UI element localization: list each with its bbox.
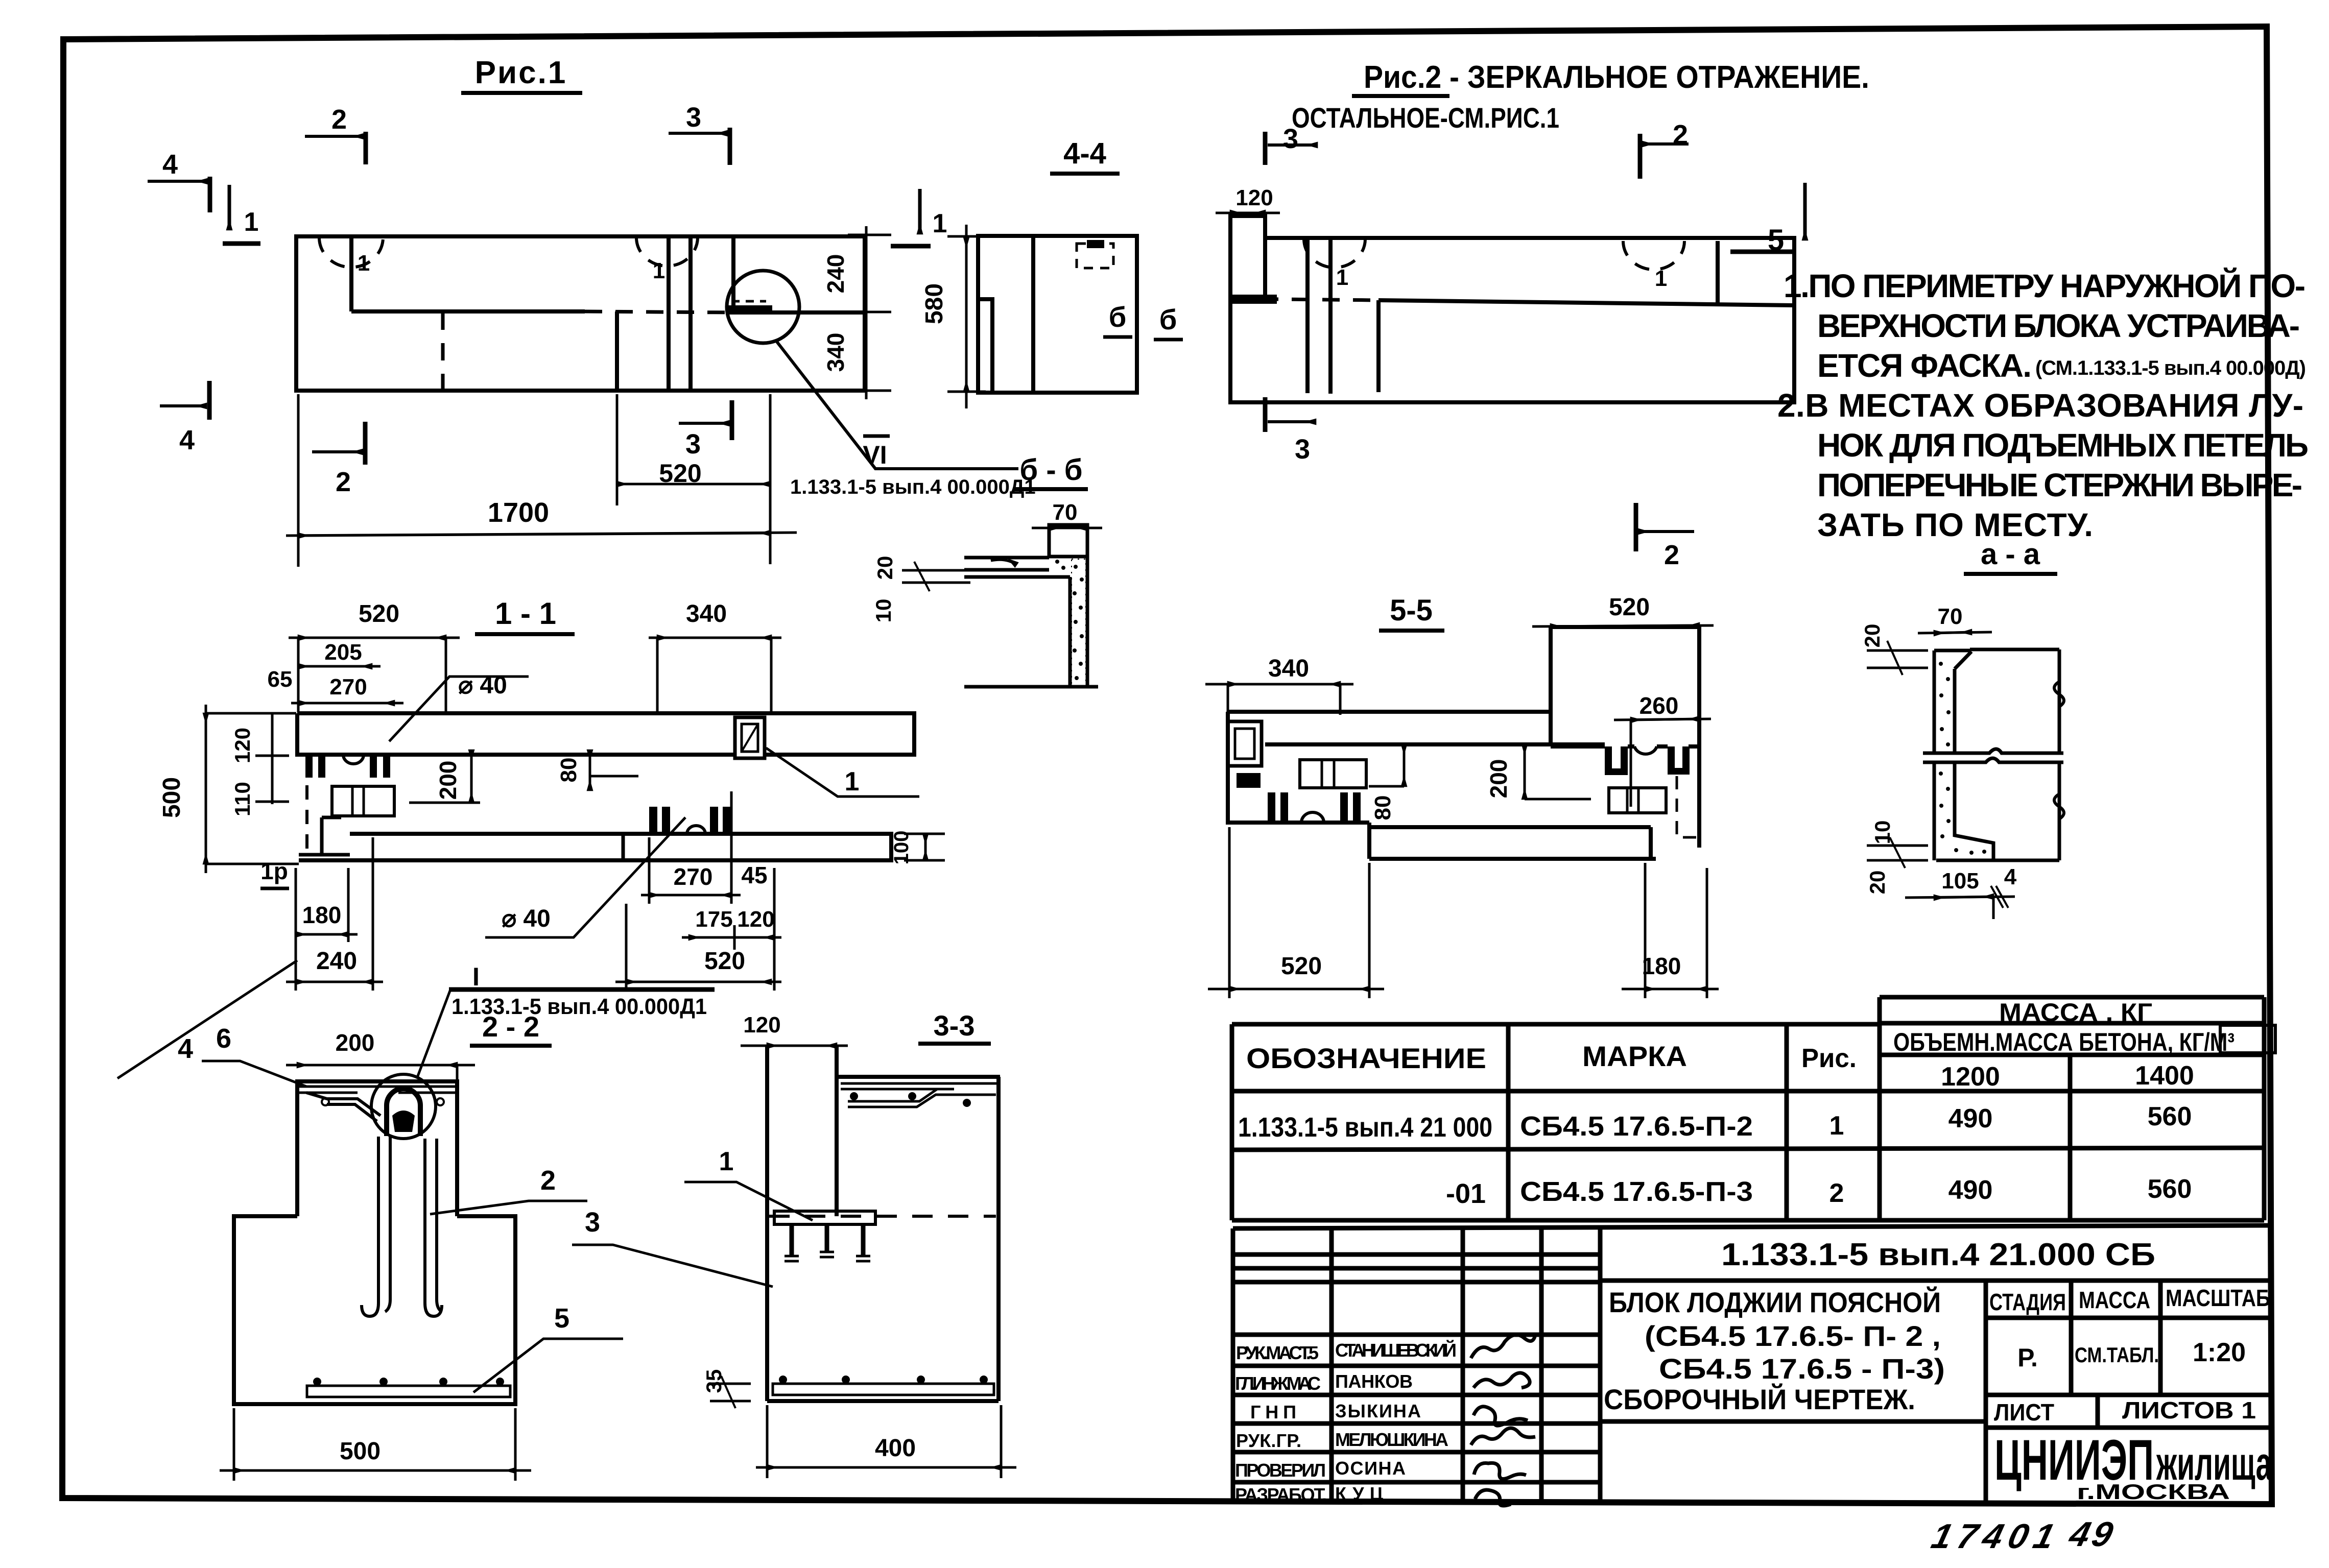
left corner L (299, 817, 388, 860)
svg-text:1.133.1-5 вып.4 21.000 СБ: 1.133.1-5 вып.4 21.000 СБ (1721, 1237, 2155, 1272)
svg-text:СБ4.5 17.6.5-П-3: СБ4.5 17.6.5-П-3 (1520, 1176, 1753, 1207)
section mark 2 (bottom, Рис.2) (1636, 503, 1694, 570)
svg-text:СТАНИШЕВСКИЙ: СТАНИШЕВСКИЙ (1335, 1339, 1457, 1361)
break squiggle right upper (2054, 682, 2064, 707)
svg-text:1: 1 (653, 258, 665, 283)
notch bump under block (1634, 746, 1657, 754)
svg-text:Рис.: Рис. (1801, 1044, 1857, 1073)
dims 175 120 (682, 868, 781, 991)
dim 1700 below plan (286, 394, 797, 567)
svg-text:3: 3 (585, 1207, 600, 1238)
svg-text:500: 500 (158, 777, 185, 818)
svg-text:ПРОВЕРИЛ: ПРОВЕРИЛ (1235, 1460, 1326, 1481)
svg-text:2: 2 (1664, 540, 1679, 570)
loop box right end (735, 717, 765, 758)
svg-text:520: 520 (1281, 953, 1322, 980)
svg-text:3: 3 (686, 102, 701, 133)
svg-text:520: 520 (1609, 594, 1650, 621)
label 1 with leader (3-3) (684, 1147, 813, 1220)
parapet strip left (1230, 216, 1265, 299)
signatures squiggles (1471, 1335, 1535, 1506)
a-a lower wall with foot (1934, 762, 2059, 860)
svg-text:СБ4.5 17.6.5-П-2: СБ4.5 17.6.5-П-2 (1520, 1111, 1753, 1142)
notch arc on slab bottom (343, 755, 364, 764)
dim 340 top (649, 600, 781, 712)
svg-text:МАССА: МАССА (2079, 1287, 2150, 1313)
svg-text:1: 1 (358, 251, 370, 276)
svg-text:560: 560 (2148, 1174, 2192, 1204)
dim 580 (921, 225, 986, 408)
elevated block 5-5 (1551, 625, 1699, 746)
4-4 recess dashed (1077, 244, 1113, 268)
2-2 base outline (234, 1216, 515, 1404)
svg-text:5: 5 (554, 1303, 569, 1334)
dim 400 (3-3) (756, 1405, 1016, 1478)
svg-text:СБОРОЧНЫЙ ЧЕРТЕЖ.: СБОРОЧНЫЙ ЧЕРТЕЖ. (1604, 1383, 1915, 1415)
svg-text:240: 240 (316, 948, 357, 975)
svg-text:⌀ 40: ⌀ 40 (502, 905, 551, 932)
label 2 with leader (430, 1165, 587, 1214)
dim 520 bottom (5-5) (1208, 827, 1384, 998)
3-3 bottom mesh (773, 1384, 994, 1395)
inner line solid right part (1379, 300, 1794, 305)
svg-text:1.ПО ПЕРИМЕТРУ НАРУЖНОЙ ПО-: 1.ПО ПЕРИМЕТРУ НАРУЖНОЙ ПО- (1784, 267, 2306, 304)
svg-text:1.133.1-5 вып.4 00.000Д1: 1.133.1-5 вып.4 00.000Д1 (790, 476, 1036, 498)
svg-text:ЗАТЬ ПО МЕСТУ.: ЗАТЬ ПО МЕСТУ. (1817, 506, 2093, 543)
a-a dims 105 4 (1905, 864, 2017, 919)
svg-text:ОСТАЛЬНОЕ-СМ.РИС.1: ОСТАЛЬНОЕ-СМ.РИС.1 (1292, 102, 1559, 134)
svg-text:10: 10 (871, 599, 895, 623)
svg-text:340: 340 (822, 333, 849, 372)
svg-text:1: 1 (1829, 1111, 1844, 1141)
svg-text:3-3: 3-3 (934, 1009, 975, 1042)
svg-text:1.133.1-5 вып.4 21 000: 1.133.1-5 вып.4 21 000 (1238, 1112, 1492, 1143)
right stirrups U-shapes (1605, 746, 1690, 775)
vline right portion (731, 236, 735, 312)
label 6 with leader (202, 1023, 306, 1087)
svg-text:РУК.МАСТ.5: РУК.МАСТ.5 (1236, 1342, 1319, 1363)
signature table verticals (1329, 1228, 1334, 1500)
section mark 3 (bottom, Рис.2) (1265, 397, 1316, 465)
svg-text:Рис.1: Рис.1 (475, 55, 567, 90)
svg-text:2: 2 (1829, 1178, 1844, 1208)
svg-text:ЛИСТ: ЛИСТ (1994, 1399, 2054, 1426)
a-a dim 20 top left (1860, 624, 1928, 675)
step vline right (1716, 241, 1720, 303)
svg-text:ГНП: ГНП (1250, 1402, 1296, 1422)
bottom mesh plate (307, 1386, 510, 1397)
label Рис.2 - зеркальное отражение (1292, 60, 1869, 134)
svg-text:120: 120 (1235, 185, 1273, 210)
svg-text:2: 2 (540, 1165, 556, 1196)
svg-text:ПАНКОВ: ПАНКОВ (1335, 1371, 1413, 1392)
section mark 4 (top) (148, 149, 210, 212)
dashed vline (441, 312, 445, 391)
svg-text:4-4: 4-4 (1063, 137, 1106, 170)
a-a stipple (1939, 662, 1986, 855)
dim 80 (5-5) (1369, 744, 1404, 820)
dashed hidden corner (1677, 776, 1699, 837)
svg-text:б: б (1109, 301, 1127, 333)
detail circle VI (727, 271, 799, 343)
svg-text:2.В МЕСТАХ ОБРАЗОВАНИЯ ЛУ-: 2.В МЕСТАХ ОБРАЗОВАНИЯ ЛУ- (1777, 387, 2303, 424)
svg-text:Р.: Р. (2017, 1343, 2038, 1372)
5-5 left edge and bottom left (1228, 712, 1369, 823)
top plate lines (299, 1087, 456, 1093)
svg-text:80: 80 (556, 758, 581, 783)
4-4 inner vline (1031, 236, 1035, 393)
4-4 outline (978, 236, 1137, 393)
svg-text:1200: 1200 (1941, 1062, 2000, 1092)
svg-text:-01: -01 (1446, 1178, 1486, 1209)
svg-text:580: 580 (921, 283, 948, 324)
svg-text:120: 120 (743, 1012, 780, 1038)
svg-text:400: 400 (875, 1435, 916, 1462)
dim 340 top left (1205, 655, 1353, 715)
svg-text:I: I (472, 962, 480, 991)
svg-text:ЛИСТОВ 1: ЛИСТОВ 1 (2122, 1397, 2256, 1424)
loop inside circle (387, 1089, 420, 1136)
section mark 3 (bottom) (679, 400, 732, 460)
svg-text:г.МОСКВА: г.МОСКВА (2077, 1480, 2230, 1504)
svg-text:а - а: а - а (1981, 538, 2040, 571)
notch bump on bottom slab (687, 826, 705, 834)
1-1 top slab (297, 713, 914, 755)
5-5 top slab (1228, 712, 1605, 744)
2-2 stem outline (297, 1081, 457, 1216)
svg-text:20: 20 (873, 556, 897, 580)
break squiggle right lower (2054, 794, 2064, 819)
svg-text:520: 520 (704, 948, 745, 975)
svg-text:5-5: 5-5 (1390, 594, 1433, 627)
dim 205 (298, 640, 381, 666)
label 3-3 (918, 1009, 991, 1044)
section mark 3 (top) (669, 102, 730, 165)
dim 200 (5-5) (1485, 744, 1591, 799)
svg-text:100: 100 (890, 831, 913, 865)
label Рис.1 (461, 55, 582, 93)
svg-text:6: 6 (216, 1023, 231, 1054)
fillet arc with 1 (middle) (636, 237, 698, 266)
svg-text:4: 4 (2004, 864, 2017, 889)
left wall dashed edge (305, 761, 308, 850)
svg-text:1р: 1р (260, 858, 288, 884)
inner line dashed left part (1230, 299, 1379, 300)
svg-text:520: 520 (359, 600, 399, 628)
washer plate left (332, 786, 394, 816)
svg-text:4: 4 (179, 425, 195, 455)
svg-text:ПОПЕРЕЧНЫЕ СТЕРЖНИ ВЫРЕ-: ПОПЕРЕЧНЫЕ СТЕРЖНИ ВЫРЕ- (1817, 467, 2302, 503)
label ⌀40 top with leader (389, 672, 529, 741)
bottom slab 1-1 (299, 834, 891, 860)
dim 80 mid (556, 750, 638, 790)
svg-text:500: 500 (340, 1438, 381, 1465)
section mark 2 (bottom) (312, 422, 365, 497)
right part grid (1600, 1278, 2272, 1283)
label a-a (1964, 538, 2057, 574)
svg-text:ГЛ.ИНЖ.МАС: ГЛ.ИНЖ.МАС (1235, 1373, 1321, 1394)
dim 270 top (291, 638, 403, 712)
a-a dims 10 20 bottom left (1865, 821, 1928, 895)
svg-text:340: 340 (1268, 655, 1309, 682)
dim 120 (strip) (1216, 185, 1280, 213)
svg-text:1: 1 (719, 1147, 734, 1176)
svg-text:490: 490 (1948, 1175, 1993, 1205)
plan outline Рис.1 (296, 236, 865, 391)
svg-text:1:20: 1:20 (2193, 1338, 2246, 1367)
dim 500 (220, 1408, 531, 1481)
svg-text:180: 180 (1642, 953, 1681, 979)
svg-text:70: 70 (1938, 604, 1963, 629)
dim 70 (a-a) (1918, 604, 1992, 633)
washer plate right 5-5 (1609, 788, 1666, 813)
svg-text:Рис.2 - ЗЕРКАЛЬНОЕ ОТРАЖЕНИЕ.: Рис.2 - ЗЕРКАЛЬНОЕ ОТРАЖЕНИЕ. (1364, 60, 1869, 95)
dashed mid inner line (585, 311, 729, 312)
label 3 with leader (3-3) (572, 1207, 773, 1287)
left stirrups (1268, 792, 1361, 823)
bottom slab 5-5 (1369, 823, 1656, 859)
dim 240 (286, 837, 383, 991)
svg-text:340: 340 (686, 600, 727, 628)
label 2-2 (470, 1010, 552, 1046)
svg-text:НОК ДЛЯ ПОДЪЕМНЫХ ПЕТЕЛЬ: НОК ДЛЯ ПОДЪЕМНЫХ ПЕТЕЛЬ (1817, 427, 2309, 464)
б-б wall (964, 557, 1098, 687)
svg-text:ОБОЗНАЧЕНИЕ: ОБОЗНАЧЕНИЕ (1246, 1042, 1486, 1074)
svg-text:120: 120 (230, 728, 254, 763)
table outer and grid (1232, 1022, 1880, 1027)
svg-text:180: 180 (302, 902, 342, 928)
block bottom edge with stirrups (5-5 right part) (1551, 744, 1699, 749)
svg-text:3: 3 (1283, 124, 1298, 154)
svg-text:VI: VI (863, 441, 887, 469)
svg-text:б: б (1159, 303, 1177, 335)
б-б dims 20 10 (871, 556, 970, 623)
б-б stipple fill (1055, 559, 1086, 687)
dims 120 110 left (230, 713, 289, 816)
svg-text:БЛОК ЛОДЖИИ ПОЯСНОЙ: БЛОК ЛОДЖИИ ПОЯСНОЙ (1609, 1286, 1941, 1318)
label 4 with leader (117, 960, 297, 1078)
svg-text:РАЗРАБОТ.: РАЗРАБОТ. (1235, 1484, 1327, 1505)
svg-text:70: 70 (1053, 500, 1078, 525)
label 4-4 (1050, 137, 1120, 174)
svg-text:2: 2 (336, 467, 351, 497)
double joint lines (1305, 238, 1310, 393)
dim 200 (2-2) (286, 1029, 475, 1081)
dim 65 (268, 667, 293, 692)
4-4 step (978, 299, 992, 393)
svg-text:2 - 2: 2 - 2 (482, 1010, 539, 1043)
svg-text:СБ4.5 17.6.5 - П-3): СБ4.5 17.6.5 - П-3) (1659, 1353, 1945, 1385)
svg-text:1: 1 (845, 767, 860, 797)
svg-text:20: 20 (1860, 624, 1884, 648)
double joint lines (667, 236, 671, 391)
inner vline (615, 311, 619, 391)
svg-text:СТАДИЯ: СТАДИЯ (1989, 1289, 2066, 1315)
3-3 outline (767, 1046, 1000, 1401)
svg-text:(СМ.1.133.1-5 вып.4 00.000Д): (СМ.1.133.1-5 вып.4 00.000Д) (2035, 357, 2306, 379)
svg-text:ОБЪЕМН.МАССА БЕТОНА, КГ/М³: ОБЪЕМН.МАССА БЕТОНА, КГ/М³ (1893, 1028, 2235, 1056)
dim 120 (3-3) (741, 1012, 848, 1046)
view mark 5 (top, down arrow) (1730, 183, 1805, 257)
3-3 anchor plate with studs (774, 1211, 875, 1224)
svg-text:260: 260 (1639, 692, 1679, 719)
svg-text:205: 205 (324, 640, 362, 665)
dim 200 mid (409, 750, 480, 803)
plan outline Рис.2 (1230, 238, 1794, 402)
label ⌀40 bottom with leader (485, 817, 685, 937)
dim 520 bottom (615, 904, 781, 991)
washer plate left 5-5 (1300, 760, 1366, 788)
svg-text:560: 560 (2148, 1102, 2192, 1131)
dim 520 below plan (617, 394, 770, 564)
svg-text:1700: 1700 (488, 497, 549, 528)
3-3 dashed mid line (769, 1215, 996, 1218)
б-б slab lines (964, 558, 1070, 577)
svg-text:240: 240 (822, 254, 849, 294)
dim 100 right (890, 831, 945, 865)
б-б small arrow into slab (991, 560, 1016, 565)
svg-text:МАССА , КГ: МАССА , КГ (1999, 998, 2152, 1027)
leader to VI label (776, 341, 1018, 469)
svg-text:65: 65 (268, 667, 293, 692)
dim 260 (1614, 692, 1711, 807)
svg-text:б - б: б - б (1019, 453, 1082, 487)
recess bar (lifting loop pocket) (726, 305, 772, 315)
section mark 3 (top, Рис.2) (1265, 124, 1317, 165)
svg-text:200: 200 (1485, 759, 1512, 799)
svg-text:270: 270 (674, 863, 713, 890)
dim 70 (1032, 500, 1102, 528)
right edge below block (1697, 746, 1701, 848)
label 5-5 (1379, 594, 1444, 631)
svg-text:200: 200 (336, 1029, 375, 1056)
label I and ref text above 2-2 (417, 962, 715, 1077)
svg-text:3: 3 (1295, 434, 1310, 465)
notch on bottom edge left (1301, 812, 1324, 823)
svg-text:17401: 17401 (1928, 1516, 2064, 1556)
view mark 1 near 4-4 (891, 189, 947, 246)
bent anchor plate (306, 1093, 381, 1121)
hairpin wires (362, 1137, 390, 1316)
svg-text:105: 105 (1941, 869, 1979, 894)
handwritten inventory numbers (1928, 1514, 2120, 1556)
svg-text:1400: 1400 (2135, 1061, 2194, 1091)
svg-text:2: 2 (331, 104, 347, 135)
dim 520 top (on elevated block) (1532, 594, 1714, 626)
inner vline (1376, 300, 1381, 392)
section mark 4 (bottom) (160, 381, 209, 455)
section mark 2 (top, Рис.2) (1640, 119, 1689, 179)
svg-text:1 - 1: 1 - 1 (495, 596, 556, 631)
leader 1 right (766, 748, 919, 797)
section mark 2 (top) (305, 104, 366, 164)
label 5 with leader (473, 1303, 623, 1392)
svg-text:КУЦ: КУЦ (1335, 1483, 1384, 1504)
svg-text:520: 520 (659, 459, 701, 488)
dim 520 top (289, 600, 460, 712)
fillet arc with 1 (left) (319, 237, 383, 267)
dim 35 (3-3) (702, 1369, 751, 1408)
recess bar near strip (1232, 295, 1277, 304)
svg-text:20: 20 (1865, 871, 1889, 895)
a-a middle break lines (1923, 749, 2063, 762)
svg-text:МАСШТАБ: МАСШТАБ (2166, 1285, 2270, 1311)
labels б б (1103, 301, 1183, 340)
svg-text:ВЕРХНОСТИ БЛОКА УСТРАИВА-: ВЕРХНОСТИ БЛОКА УСТРАИВА- (1817, 307, 2300, 344)
б-б parapet box (1049, 525, 1087, 557)
3-3 top Z-plate (841, 1083, 997, 1107)
svg-text:45: 45 (741, 862, 767, 888)
dim 180 (5-5) (1622, 863, 1719, 998)
label б-б (1014, 453, 1088, 489)
a-a upper wall with chamfer (1934, 649, 2059, 753)
svg-text:175: 175 (695, 907, 732, 932)
svg-text:200: 200 (435, 761, 461, 800)
svg-text:110: 110 (230, 782, 254, 816)
dim 270 bottom (641, 791, 741, 904)
view mark 1 (top, down arrow) (223, 185, 260, 244)
dim 240 / 340 right of plan (822, 226, 891, 399)
svg-text:(СБ4.5 17.6.5- П- 2 ,: (СБ4.5 17.6.5- П- 2 , (1645, 1320, 1941, 1352)
svg-text:1: 1 (933, 209, 947, 238)
signature table rows (1233, 1252, 1600, 1257)
svg-text:СМ.ТАБЛ.: СМ.ТАБЛ. (2075, 1343, 2159, 1367)
svg-text:МАРКА: МАРКА (1582, 1040, 1687, 1072)
stirrups on bottom slab (649, 807, 731, 834)
svg-text:1: 1 (1655, 266, 1667, 291)
dim 180 (296, 868, 358, 942)
svg-text:1: 1 (1336, 265, 1348, 290)
svg-text:ЕТСЯ ФАСКА.: ЕТСЯ ФАСКА. (1817, 347, 2032, 384)
svg-text:РУК.ГР.: РУК.ГР. (1236, 1430, 1301, 1451)
svg-text:1: 1 (244, 207, 259, 237)
svg-text:120: 120 (737, 907, 774, 932)
label 1p (260, 858, 289, 888)
svg-text:ОСИНА: ОСИНА (1335, 1458, 1406, 1479)
svg-text:МЕЛЮШКИНА: МЕЛЮШКИНА (1335, 1429, 1448, 1450)
left loop box (1228, 721, 1262, 766)
label 1-1 (475, 596, 575, 634)
svg-text:270: 270 (329, 674, 367, 699)
stirrups below slab left (305, 755, 390, 778)
svg-text:35: 35 (702, 1369, 726, 1393)
svg-text:3: 3 (685, 429, 701, 460)
step notch line (351, 236, 865, 312)
svg-text:80: 80 (1370, 795, 1395, 821)
svg-text:490: 490 (1948, 1104, 1993, 1133)
svg-text:4: 4 (162, 149, 178, 180)
signature rows texts (1235, 1339, 1457, 1505)
fillet arcs with 1 (1304, 239, 1365, 268)
dim 500 left (158, 705, 299, 873)
loop detail circle (371, 1074, 436, 1139)
